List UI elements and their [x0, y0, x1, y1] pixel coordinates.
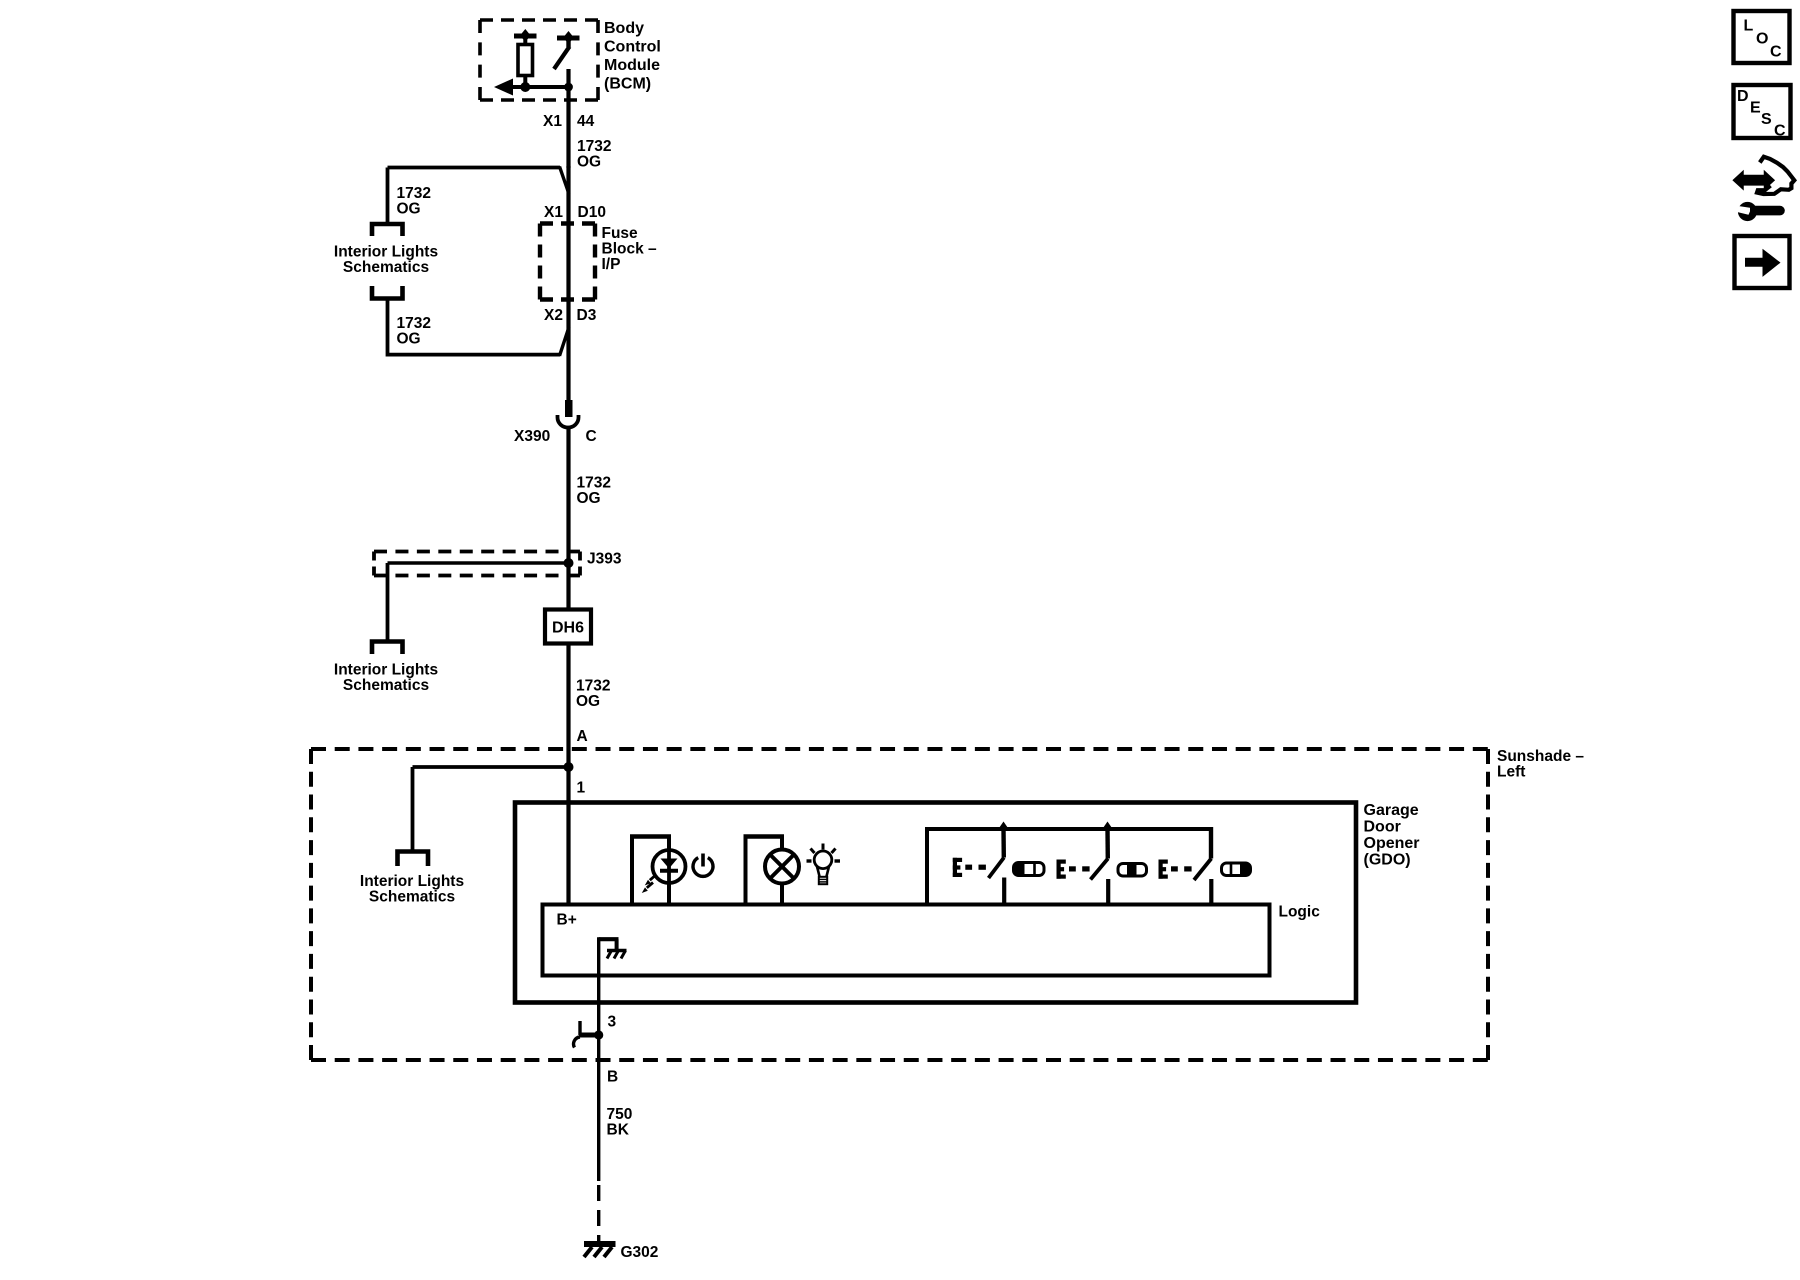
indicator pill 3 (right cell filled): [1222, 863, 1251, 876]
svg-text:Schematics: Schematics: [369, 889, 455, 906]
svg-text:Control: Control: [604, 39, 661, 56]
fuse F1 inside BCM: [514, 29, 537, 88]
power symbol icon: [693, 854, 713, 877]
module U1 Body Control Module (BCM) dashed box: [480, 20, 598, 100]
switch S1 inside BCM: [554, 31, 580, 69]
svg-text:Opener: Opener: [1364, 835, 1420, 852]
switch SW1: [989, 822, 1010, 905]
svg-text:OG: OG: [577, 154, 601, 171]
svg-text:BK: BK: [607, 1122, 630, 1139]
svg-text:750: 750: [607, 1106, 633, 1123]
wire trunk through fuse block to connector X390: [566, 224, 570, 401]
switch SW2: [1091, 822, 1114, 905]
svg-text:(GDO): (GDO): [1364, 852, 1411, 869]
BCM internal wire with left arrow: [494, 79, 573, 96]
svg-text:S: S: [1761, 111, 1772, 128]
svg-text:X390: X390: [514, 428, 550, 445]
svg-text:1732: 1732: [576, 678, 610, 695]
off-page connector bracket (J393 branch): [372, 642, 403, 655]
svg-text:Interior Lights: Interior Lights: [334, 662, 438, 679]
double-headed arrow: [1734, 172, 1775, 189]
svg-text:D: D: [1737, 88, 1749, 105]
lamp branch wire loop: [744, 837, 785, 905]
Logic box inside GDO: [543, 905, 1270, 976]
outline bent arrow: [1757, 157, 1794, 194]
svg-text:I/P: I/P: [602, 256, 621, 273]
ground wire elbow inside Logic box: [599, 939, 619, 949]
svg-text:OG: OG: [397, 201, 421, 218]
ground wire down from Logic to pin 3: [597, 937, 600, 1035]
svg-text:B+: B+: [557, 912, 577, 929]
svg-text:C: C: [586, 428, 597, 445]
svg-text:(BCM): (BCM): [604, 76, 651, 93]
svg-text:44: 44: [577, 113, 595, 130]
switch SW3: [1194, 827, 1211, 904]
svg-text:E: E: [1750, 100, 1761, 117]
switch SW2 label E--: [1057, 860, 1066, 879]
off-page connector bracket (upper pair, top): [372, 224, 403, 236]
connector X390 female cup: [558, 415, 579, 428]
LED D1 circle: [653, 850, 686, 883]
svg-text:G302: G302: [621, 1244, 659, 1261]
svg-text:Door: Door: [1364, 819, 1401, 836]
splice pack J393 dashed box: [374, 550, 580, 554]
svg-text:B: B: [607, 1069, 618, 1086]
svg-text:3: 3: [608, 1014, 617, 1031]
wire from bracket to lower branch line: [388, 299, 570, 357]
branch wire to Interior Lights Schematics (upper): [388, 167, 570, 225]
svg-text:DH6: DH6: [552, 620, 584, 637]
svg-text:1732: 1732: [577, 475, 611, 492]
svg-text:Garage: Garage: [1364, 802, 1419, 819]
chassis ground symbol inside Logic: [607, 951, 627, 959]
svg-text:Interior Lights: Interior Lights: [334, 244, 438, 261]
nav icon schematic navigation (double arrow, outline arrow, wrench): [1734, 157, 1795, 221]
svg-text:X1: X1: [543, 113, 562, 130]
wrench: [1735, 202, 1785, 221]
svg-text:OG: OG: [577, 490, 601, 507]
svg-text:A: A: [577, 728, 588, 745]
ground wire from pin 3 through sunshade border: [597, 1035, 600, 1181]
svg-text:C: C: [1774, 123, 1786, 140]
wire trunk from DH6 into sunshade: [566, 643, 570, 905]
wire trunk from X390 to splice J393: [566, 429, 570, 563]
svg-text:Module: Module: [604, 57, 660, 74]
svg-text:Schematics: Schematics: [343, 677, 429, 694]
connector DH6 box: [545, 610, 591, 644]
connector X390 male pin: [565, 400, 573, 417]
svg-text:1732: 1732: [397, 315, 431, 332]
fuse block I/P dashed box: [540, 221, 595, 225]
ground G302 symbol: [584, 1244, 616, 1257]
svg-text:O: O: [1756, 31, 1768, 48]
off-page connector bracket (sunshade branch): [398, 852, 429, 867]
svg-text:Block –: Block –: [602, 241, 658, 258]
svg-text:1: 1: [577, 780, 586, 797]
nav icon DESC box: [1734, 85, 1791, 140]
svg-text:Body: Body: [604, 20, 644, 37]
svg-text:OG: OG: [397, 331, 421, 348]
svg-text:Interior Lights: Interior Lights: [360, 873, 464, 890]
svg-text:J393: J393: [587, 551, 622, 568]
svg-text:Logic: Logic: [1279, 904, 1321, 921]
nav icon next arrow box: [1735, 236, 1790, 288]
svg-text:Schematics: Schematics: [343, 259, 429, 276]
svg-text:X2: X2: [544, 307, 563, 324]
svg-text:Fuse: Fuse: [602, 225, 639, 242]
svg-text:L: L: [1744, 18, 1754, 35]
switch bank top rail wire: [927, 827, 1211, 904]
light bulb icon: [807, 844, 841, 885]
ring terminal connector at pin 3: [574, 1021, 604, 1048]
off-page connector bracket (upper pair, bottom): [372, 286, 403, 299]
svg-text:OG: OG: [576, 693, 600, 710]
svg-text:Left: Left: [1497, 764, 1525, 781]
Garage Door Opener (GDO) box: [515, 803, 1356, 1003]
junction node on trunk inside sunshade: [564, 762, 574, 772]
LED emission arrows: [642, 875, 656, 893]
nav icon LOC box: [1734, 11, 1790, 63]
svg-text:X1: X1: [544, 204, 563, 221]
svg-text:D10: D10: [578, 204, 606, 221]
wire trunk from J393 to DH6: [566, 563, 570, 610]
svg-text:C: C: [1770, 44, 1782, 61]
switch SW3 label E--: [1159, 860, 1168, 879]
indicator pill 1 (left cell filled): [1013, 862, 1044, 875]
switch SW1 label E--: [953, 858, 962, 877]
Sunshade - Left dashed box: [311, 747, 1488, 751]
indicator pill 2 (middle cell filled): [1118, 864, 1147, 877]
dashed ground lead: [597, 1185, 600, 1242]
branch wire inside J393 to Interior Lights: [388, 563, 569, 641]
lamp L1 circle with X: [765, 850, 799, 884]
svg-text:Sunshade –: Sunshade –: [1497, 748, 1584, 765]
branch wire to Interior Lights Schematics (inside sunshade): [413, 767, 569, 851]
splice junction dot J393: [564, 558, 574, 568]
svg-text:D3: D3: [577, 307, 597, 324]
wire trunk from BCM to fuse block: [566, 166, 570, 225]
LED indicator branch wire loop: [630, 837, 671, 905]
svg-text:1732: 1732: [577, 138, 611, 155]
svg-text:1732: 1732: [397, 185, 431, 202]
wire from BCM switch contact down to pin X1 44: [566, 69, 570, 168]
